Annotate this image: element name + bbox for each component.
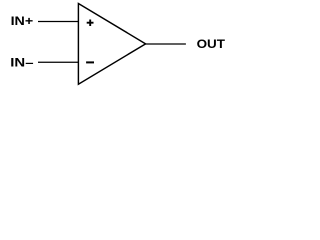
pin symbol + (non-inverting input) [87, 20, 94, 27]
svg-text:OUT: OUT [197, 39, 225, 51]
op-amp U1 [78, 4, 145, 85]
svg-text:IN+: IN+ [11, 16, 34, 28]
wire OUT output [145, 43, 186, 45]
svg-text:IN–: IN– [10, 58, 34, 70]
wire IN+ input [38, 21, 79, 23]
pin symbol - (inverting input) [86, 61, 94, 63]
wire IN- input [38, 61, 79, 63]
